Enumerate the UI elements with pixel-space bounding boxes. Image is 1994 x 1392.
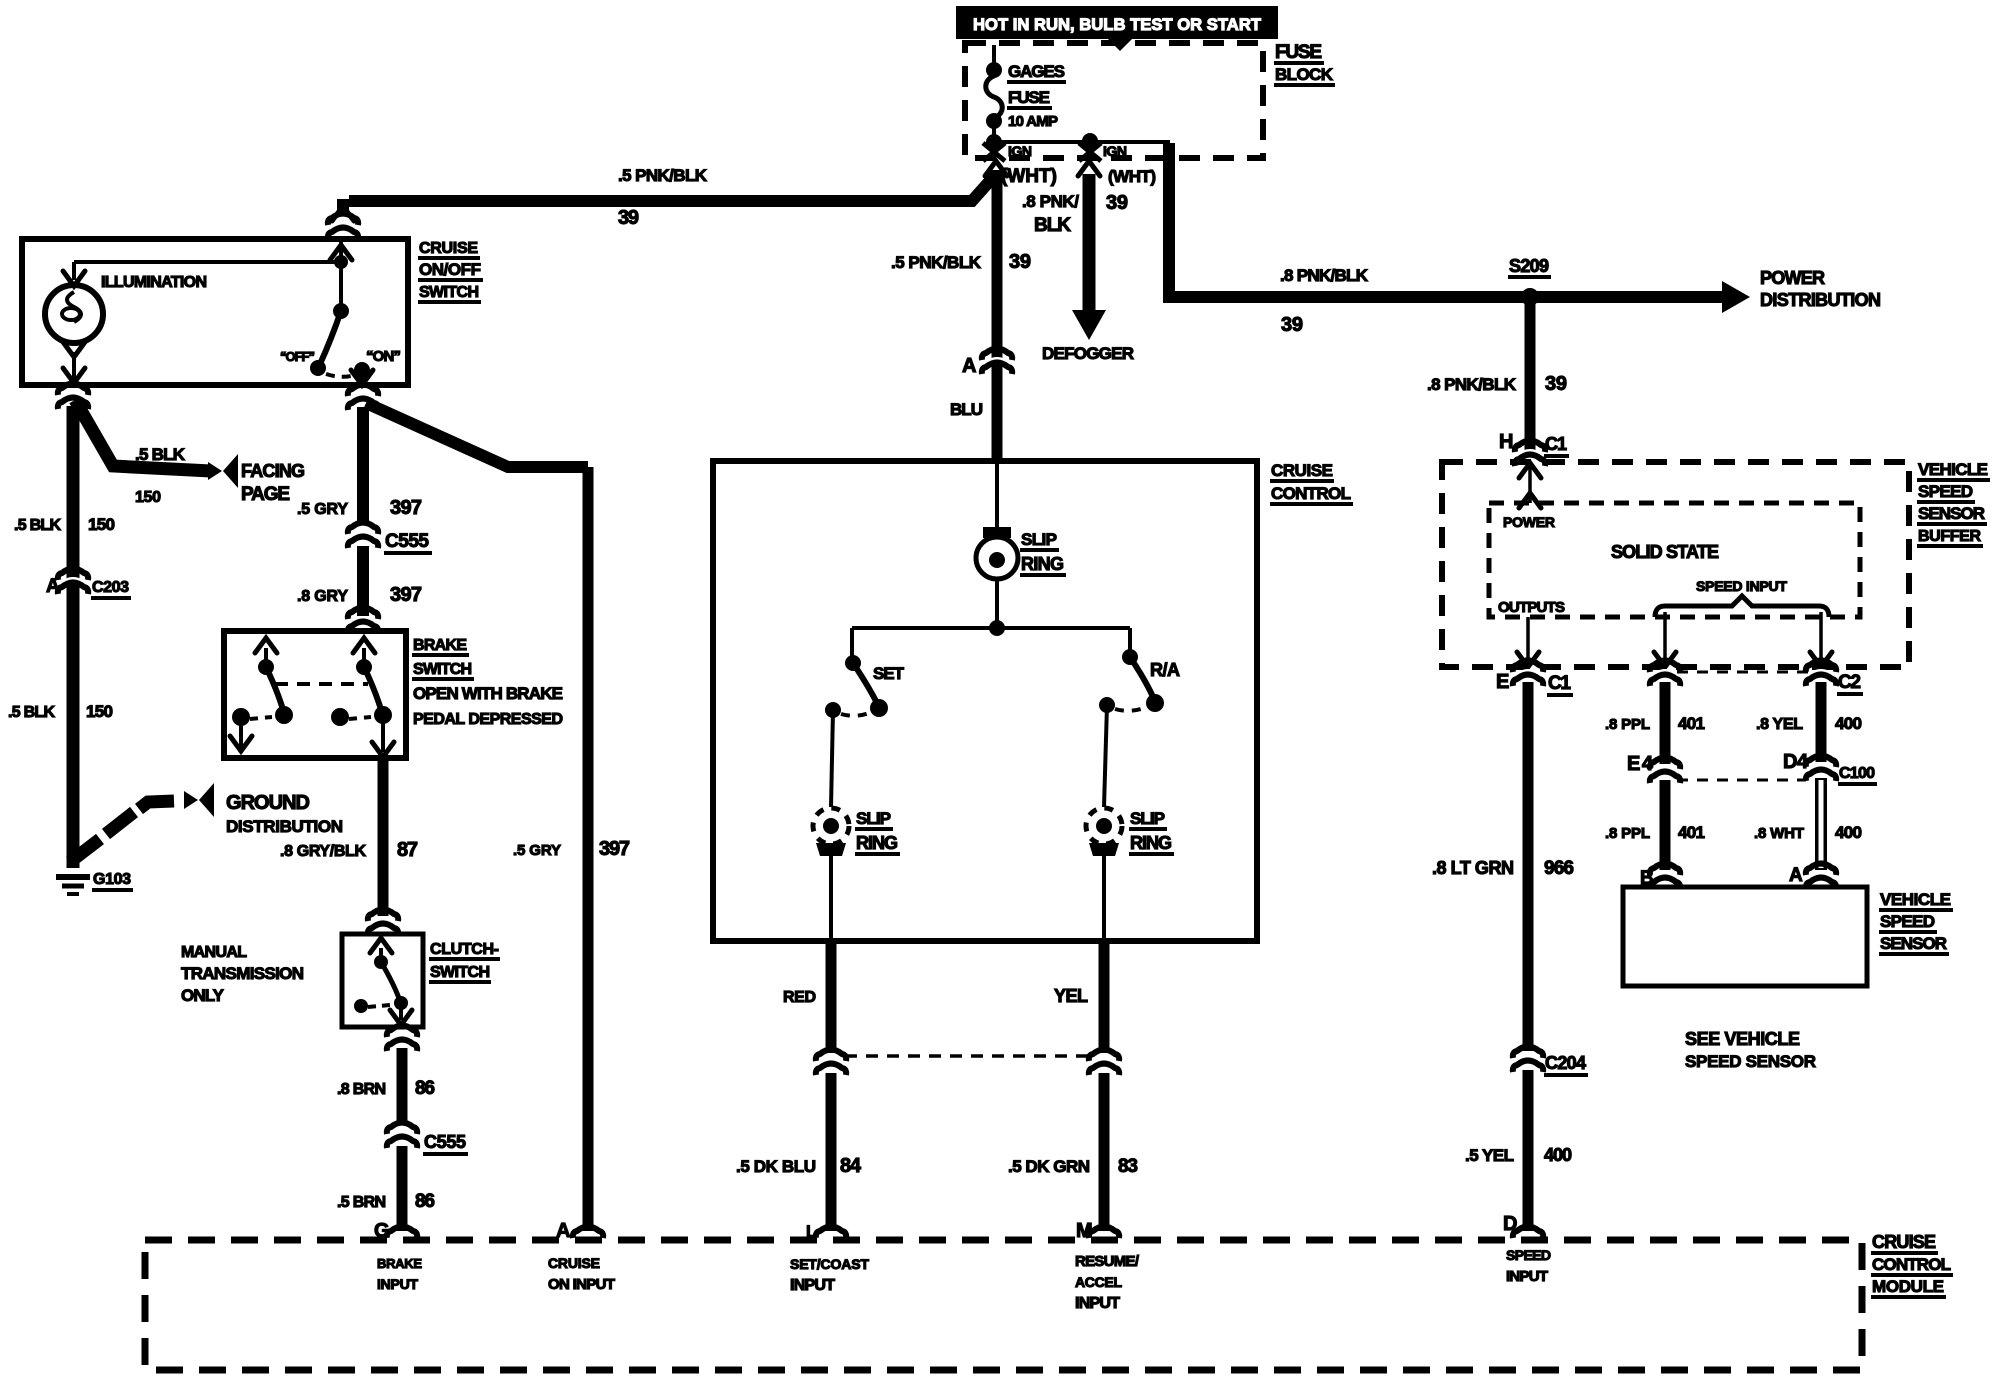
connector C203 <box>46 569 131 599</box>
svg-text:GROUND: GROUND <box>226 792 310 814</box>
label CRUISE CONTROL <box>1270 461 1353 504</box>
slip ring 3 <box>1086 808 1122 856</box>
svg-text:ILLUMINATION: ILLUMINATION <box>101 274 207 291</box>
svg-text:OUTPUTS: OUTPUTS <box>1498 599 1565 616</box>
svg-text:SWITCH: SWITCH <box>419 284 479 301</box>
label SEE VEHICLE SPEED SENSOR <box>1685 1029 1816 1071</box>
svg-text:IGN: IGN <box>1008 143 1032 159</box>
svg-text:BLOCK: BLOCK <box>1275 65 1334 84</box>
svg-text:YEL: YEL <box>1054 986 1088 1006</box>
wire .5 GRY upper <box>357 407 369 524</box>
svg-text:M: M <box>1076 1220 1093 1242</box>
svg-text:CRUISE: CRUISE <box>1271 461 1333 480</box>
arrow switch output <box>351 370 373 385</box>
svg-text:.5 BLK: .5 BLK <box>8 704 55 721</box>
svg-text:CONTROL: CONTROL <box>1872 1255 1951 1274</box>
svg-text:150: 150 <box>86 702 113 721</box>
svg-text:.5 BLK: .5 BLK <box>135 445 186 464</box>
wire .8 PPL upper <box>1660 682 1671 764</box>
svg-text:FACING: FACING <box>241 461 305 481</box>
connector RED <box>815 1050 847 1076</box>
svg-text:39: 39 <box>618 207 639 229</box>
svg-text:.8 YEL: .8 YEL <box>1756 716 1803 733</box>
label BRAKE SWITCH OPEN WITH BRAKE PEDAL DEPRESSED <box>412 637 563 728</box>
wire .8 BRN <box>397 1048 408 1124</box>
connector C2 <box>1805 661 1863 695</box>
contact OFF <box>310 360 326 376</box>
label MANUAL TRANSMISSION ONLY <box>181 944 304 1005</box>
wire facing page branch <box>75 400 211 471</box>
svg-text:“ON”: “ON” <box>366 348 401 365</box>
dashed link E-C2 <box>1677 671 1809 674</box>
dashed linkage <box>275 682 368 686</box>
arrow ground distribution <box>184 783 214 817</box>
switch arm to OFF <box>320 311 341 364</box>
svg-text:ON INPUT: ON INPUT <box>548 1276 615 1293</box>
svg-text:.8 LT GRN: .8 LT GRN <box>1432 858 1514 878</box>
wire .5 PNK/BLK horizontal feed <box>349 174 996 201</box>
svg-text:SOLID STATE: SOLID STATE <box>1611 542 1719 562</box>
svg-text:C100: C100 <box>1839 765 1875 782</box>
svg-text:G: G <box>374 1220 390 1242</box>
pin IGN 2 <box>1079 143 1127 161</box>
svg-text:G103: G103 <box>93 871 131 888</box>
wire .8 YEL <box>1816 682 1827 762</box>
svg-text:401: 401 <box>1678 714 1705 733</box>
svg-text:CONTROL: CONTROL <box>1271 484 1351 503</box>
wire bulb to case <box>63 342 85 383</box>
wire S209 down <box>1525 297 1536 450</box>
svg-text:RING: RING <box>1021 554 1064 574</box>
svg-text:400: 400 <box>1544 1145 1572 1165</box>
svg-text:CRUISE: CRUISE <box>1872 1232 1936 1252</box>
svg-text:DEFOGGER: DEFOGGER <box>1042 344 1134 363</box>
connector at cruise switch top <box>327 214 359 240</box>
node servo junction <box>989 620 1005 636</box>
svg-text:RESUME/: RESUME/ <box>1075 1253 1140 1270</box>
svg-text:“OFF”: “OFF” <box>280 349 315 364</box>
wire to slip ring 1 <box>995 461 999 530</box>
label CRUISE CONTROL MODULE <box>1871 1232 1953 1297</box>
connector speed left <box>1649 661 1681 687</box>
svg-text:.5 DK BLU: .5 DK BLU <box>736 1157 816 1176</box>
svg-text:966: 966 <box>1544 858 1574 879</box>
wire junction bus <box>852 626 1130 630</box>
svg-text:BRAKE: BRAKE <box>413 637 467 654</box>
svg-text:E: E <box>1496 671 1509 693</box>
svg-text:CLUTCH-: CLUTCH- <box>430 941 499 958</box>
fuse block label <box>1274 42 1335 85</box>
svg-text:VEHICLE: VEHICLE <box>1918 460 1988 479</box>
connector E C1 <box>1496 661 1573 696</box>
svg-text:RED: RED <box>783 989 816 1006</box>
power banner HOT IN RUN <box>956 6 1278 51</box>
svg-text:SEE VEHICLE: SEE VEHICLE <box>1685 1029 1800 1049</box>
gages fuse 10 amp label <box>1007 62 1066 130</box>
svg-text:BRAKE: BRAKE <box>377 1256 422 1271</box>
node illumination tap <box>334 255 348 269</box>
svg-text:FUSE: FUSE <box>1275 42 1322 63</box>
svg-text:401: 401 <box>1678 823 1705 842</box>
label CRUISE ON/OFF SWITCH <box>418 240 483 302</box>
svg-text:PAGE: PAGE <box>241 484 290 505</box>
connector A vss <box>1789 864 1837 890</box>
svg-text:86: 86 <box>415 1191 435 1212</box>
gages fuse symbol <box>986 45 1003 143</box>
svg-text:C204: C204 <box>1545 1053 1586 1073</box>
svg-text:IGN: IGN <box>1103 143 1127 159</box>
svg-text:(WHT): (WHT) <box>1108 167 1156 186</box>
svg-text:SPEED: SPEED <box>1506 1247 1551 1263</box>
wire .5 BRN <box>397 1146 408 1231</box>
connector at clutch switch <box>367 910 399 936</box>
label SLIP RING 1 <box>1020 530 1066 575</box>
svg-text:150: 150 <box>88 515 115 534</box>
svg-text:400: 400 <box>1835 714 1862 733</box>
svg-text:C2: C2 <box>1838 672 1861 693</box>
wire buffer power entry <box>1519 463 1541 508</box>
svg-text:C203: C203 <box>92 579 129 596</box>
arrow facing page <box>208 454 238 488</box>
contact ON <box>354 362 370 378</box>
svg-text:POWER: POWER <box>1760 268 1825 288</box>
svg-text:BLU: BLU <box>950 400 983 419</box>
connector at brake switch <box>347 608 379 634</box>
wire slip ring 3 down <box>1102 856 1106 938</box>
pin IGN 1 <box>983 143 1032 161</box>
svg-text:INPUT: INPUT <box>1075 1295 1120 1312</box>
svg-text:ONLY: ONLY <box>181 986 225 1005</box>
svg-text:C555: C555 <box>424 1132 466 1152</box>
svg-text:TRANSMISSION: TRANSMISSION <box>181 964 304 983</box>
svg-text:SPEED: SPEED <box>1918 482 1973 501</box>
svg-text:SPEED: SPEED <box>1880 912 1935 931</box>
arrow power distribution <box>1722 281 1750 313</box>
svg-text:86: 86 <box>415 1078 435 1099</box>
wire .8 PPL lower <box>1660 780 1671 870</box>
pin M resume/accel input <box>1075 1220 1140 1312</box>
pin L set/coast input <box>790 1222 869 1294</box>
svg-text:SET: SET <box>873 664 905 683</box>
wire stub to cruise switch <box>337 199 349 214</box>
svg-text:D4: D4 <box>1783 751 1809 773</box>
wire .8 GRY <box>357 546 369 616</box>
connector C555 <box>347 523 432 554</box>
svg-text:39: 39 <box>1281 314 1303 336</box>
svg-text:397: 397 <box>599 838 630 860</box>
ground G103 <box>56 871 133 894</box>
dashed link E4-D4 <box>1677 779 1806 782</box>
wire .8 WHT hollow <box>1815 778 1827 870</box>
svg-text:PEDAL DEPRESSED: PEDAL DEPRESSED <box>413 711 563 728</box>
wire branch to cruise on input <box>366 403 588 467</box>
label VEHICLE SPEED SENSOR <box>1879 890 1953 954</box>
svg-text:.8 GRY: .8 GRY <box>297 588 348 605</box>
svg-text:A: A <box>1789 865 1803 886</box>
wire slip ring to junction <box>995 579 999 628</box>
connector D4 C100 <box>1783 751 1877 784</box>
svg-text:.8 BRN: .8 BRN <box>337 1081 386 1098</box>
svg-text:39: 39 <box>1009 251 1031 273</box>
pin G brake input <box>374 1220 422 1292</box>
label SLIP RING 3 <box>1129 809 1174 854</box>
connector below illumination <box>57 384 89 410</box>
svg-text:87: 87 <box>397 839 418 861</box>
wire defogger arrow <box>1072 161 1106 340</box>
slip ring 1 <box>976 527 1018 579</box>
wire to slip ring 3 <box>1104 705 1107 807</box>
label VEHICLE SPEED SENSOR BUFFER <box>1917 460 1990 546</box>
svg-text:ON/OFF: ON/OFF <box>419 260 481 279</box>
dashed connector link <box>845 1054 1090 1058</box>
svg-text:C1: C1 <box>1545 434 1567 454</box>
cruise control box <box>713 461 1257 941</box>
wire slip ring 2 down <box>829 856 833 938</box>
svg-text:.5 BRN: .5 BRN <box>337 1194 386 1211</box>
connector YEL <box>1088 1050 1120 1076</box>
svg-text:OPEN WITH BRAKE: OPEN WITH BRAKE <box>413 684 563 703</box>
svg-text:SLIP: SLIP <box>1130 809 1165 828</box>
svg-text:A: A <box>962 355 976 377</box>
svg-text:VEHICLE: VEHICLE <box>1880 890 1951 909</box>
wire ground distribution branch <box>70 839 100 862</box>
svg-text:S209: S209 <box>1509 256 1549 276</box>
svg-text:SENSOR: SENSOR <box>1918 504 1985 523</box>
wire .5 BLK main <box>67 406 80 868</box>
connector A <box>962 349 1013 378</box>
svg-text:.5 YEL: .5 YEL <box>1465 1146 1514 1165</box>
svg-text:SENSOR: SENSOR <box>1880 934 1947 953</box>
brake switch pole 2 <box>331 638 394 757</box>
illumination bulb <box>45 285 103 343</box>
svg-text:CRUISE: CRUISE <box>548 1255 600 1271</box>
svg-text:397: 397 <box>390 584 422 606</box>
svg-text:RING: RING <box>1130 833 1172 853</box>
svg-text:.8 GRY/BLK: .8 GRY/BLK <box>280 843 366 860</box>
module box <box>145 1240 1862 1370</box>
svg-text:FUSE: FUSE <box>1008 88 1050 107</box>
svg-text:A: A <box>556 1220 570 1242</box>
svg-text:SET/COAST: SET/COAST <box>790 1256 869 1272</box>
connector C204 <box>1512 1047 1588 1076</box>
wire speed exit left <box>1654 612 1676 667</box>
wire outputs exit <box>1517 617 1539 667</box>
svg-text:150: 150 <box>135 489 161 506</box>
svg-text:MANUAL: MANUAL <box>181 944 247 961</box>
svg-text:83: 83 <box>1118 1156 1138 1177</box>
svg-text:POWER: POWER <box>1503 514 1555 530</box>
arrow into IGN1 <box>985 161 1007 176</box>
wire to illumination <box>74 260 341 264</box>
solid state box <box>1489 503 1860 617</box>
pin A cruise on input <box>548 1220 615 1293</box>
svg-text:.5 PNK/BLK: .5 PNK/BLK <box>618 166 708 185</box>
pin D speed input <box>1503 1213 1551 1285</box>
connector below clutch switch <box>386 1026 418 1052</box>
svg-text:39: 39 <box>1545 373 1567 395</box>
svg-text:SLIP: SLIP <box>856 809 891 828</box>
buffer box <box>1442 462 1909 667</box>
clutch switch contacts <box>354 938 412 1025</box>
svg-text:R/A: R/A <box>1150 660 1180 680</box>
wire .8 LT GRN <box>1523 682 1534 1051</box>
svg-text:SLIP: SLIP <box>1021 530 1057 549</box>
wire to slip ring 2 <box>831 710 833 807</box>
svg-text:RING: RING <box>856 833 898 853</box>
SET switch <box>825 628 888 718</box>
svg-text:ACCEL: ACCEL <box>1075 1274 1122 1290</box>
brake switch pole 1 <box>230 638 293 751</box>
connector below switch <box>347 385 379 411</box>
wire .5 YEL <box>1523 1070 1534 1231</box>
svg-text:C1: C1 <box>1548 673 1571 694</box>
arrow at switch feed <box>332 206 354 221</box>
connector H C1 <box>1499 431 1569 466</box>
speed input brace <box>1655 596 1829 617</box>
svg-text:INPUT: INPUT <box>1506 1268 1548 1285</box>
svg-text:.8 PNK/BLK: .8 PNK/BLK <box>1427 375 1517 394</box>
wire switch feed internal <box>339 241 343 311</box>
wire ign2 to S209 <box>1169 143 1726 297</box>
svg-text:.5 BLK: .5 BLK <box>14 517 61 534</box>
svg-text:.8 PNK/BLK: .8 PNK/BLK <box>1280 266 1369 285</box>
svg-text:H: H <box>1499 431 1513 453</box>
svg-text:SPEED SENSOR: SPEED SENSOR <box>1685 1052 1816 1071</box>
svg-text:GAGES: GAGES <box>1008 62 1065 81</box>
wire .8 GRY/BLK <box>378 758 389 916</box>
node S209 <box>1508 256 1551 306</box>
svg-text:SWITCH: SWITCH <box>430 964 490 981</box>
svg-text:HOT IN RUN, BULB TEST OR START: HOT IN RUN, BULB TEST OR START <box>973 15 1262 34</box>
brake switch box <box>224 631 406 758</box>
wire BLU drop <box>992 170 1003 460</box>
svg-text:SWITCH: SWITCH <box>413 661 472 678</box>
svg-text:D: D <box>1503 1213 1517 1235</box>
svg-text:A: A <box>46 576 60 597</box>
svg-text:.8 PPL: .8 PPL <box>1605 716 1650 733</box>
connector B <box>1640 864 1681 890</box>
cruise on/off switch box <box>22 239 408 385</box>
fuse bus wire <box>992 140 1170 144</box>
svg-text:DISTRIBUTION: DISTRIBUTION <box>226 817 343 836</box>
wire .5 DK GRN <box>1099 1073 1110 1231</box>
svg-text:.8 PNK/: .8 PNK/ <box>1022 192 1079 211</box>
svg-text:.5 GRY: .5 GRY <box>513 842 561 859</box>
label CLUTCH- SWITCH <box>429 941 500 982</box>
svg-text:397: 397 <box>390 497 422 519</box>
svg-text:84: 84 <box>840 1155 862 1177</box>
R/A switch <box>1099 628 1164 713</box>
svg-text:INPUT: INPUT <box>790 1277 835 1294</box>
svg-text:.8 PPL: .8 PPL <box>1605 825 1650 842</box>
svg-text:.5 DK GRN: .5 DK GRN <box>1008 1157 1090 1176</box>
slip ring 2 <box>813 808 849 856</box>
dashed throw arc <box>326 374 355 377</box>
svg-text:INPUT: INPUT <box>377 1276 418 1292</box>
fuse block box <box>965 43 1263 158</box>
svg-text:L: L <box>806 1222 816 1241</box>
svg-text:MODULE: MODULE <box>1872 1277 1944 1296</box>
label SLIP RING 2 <box>855 809 900 854</box>
wire .5 DK BLU <box>826 1073 837 1231</box>
connector C555 lower <box>386 1123 468 1155</box>
connector E4 <box>1627 753 1681 783</box>
switch pivot node <box>333 303 349 319</box>
svg-text:BUFFER: BUFFER <box>1918 528 1981 545</box>
svg-text:.5 GRY: .5 GRY <box>297 501 348 518</box>
svg-text:400: 400 <box>1835 823 1862 842</box>
svg-text:39: 39 <box>1106 192 1128 214</box>
svg-text:10 AMP: 10 AMP <box>1008 113 1058 130</box>
svg-text:DISTRIBUTION: DISTRIBUTION <box>1760 290 1881 310</box>
wire speed exit right <box>1810 612 1832 667</box>
wire YEL <box>1099 941 1110 1053</box>
vehicle speed sensor box <box>1623 887 1867 986</box>
svg-text:BLK: BLK <box>1034 215 1071 236</box>
svg-text:C555: C555 <box>385 531 429 552</box>
svg-text:CRUISE: CRUISE <box>419 240 478 257</box>
wire RED <box>826 941 837 1053</box>
svg-text:SPEED INPUT: SPEED INPUT <box>1696 578 1787 594</box>
svg-text:.8 WHT: .8 WHT <box>1754 825 1804 842</box>
clutch switch box <box>342 934 423 1027</box>
node bus junction <box>986 134 1002 150</box>
svg-text:.5 PNK/BLK: .5 PNK/BLK <box>891 253 982 272</box>
